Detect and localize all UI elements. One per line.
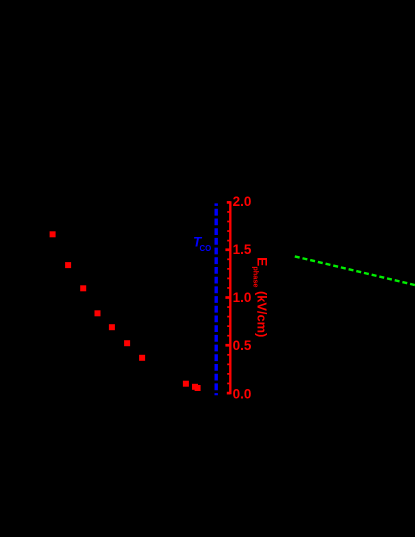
major ticks xyxy=(225,202,230,393)
data point 3 xyxy=(80,285,86,291)
data point 10 xyxy=(195,385,201,391)
green dashed line xyxy=(295,256,415,285)
data point 8 xyxy=(183,381,189,387)
axis label E_phase (kV/cm), rotated 90deg xyxy=(252,257,271,337)
red right axis spine xyxy=(229,201,231,394)
data point 5 xyxy=(109,324,115,330)
svg-text:CO: CO xyxy=(200,244,212,253)
data point 1 xyxy=(50,231,56,237)
data point 9 xyxy=(192,384,198,390)
minor ticks xyxy=(227,212,230,384)
svg-text:2.0: 2.0 xyxy=(233,194,252,209)
svg-text:1.5: 1.5 xyxy=(233,242,252,257)
data point 7 xyxy=(139,355,145,361)
svg-text:1.0: 1.0 xyxy=(233,290,252,305)
label T_CO xyxy=(193,235,211,253)
data point 6 xyxy=(124,340,130,346)
tick labels xyxy=(233,194,252,401)
svg-text:0.5: 0.5 xyxy=(233,338,252,353)
svg-text:0.0: 0.0 xyxy=(233,387,252,402)
blue dashed vertical line (T_CO marker) xyxy=(214,203,217,395)
data point 4 xyxy=(95,310,101,316)
data point 2 xyxy=(65,262,71,268)
red data squares xyxy=(50,231,201,391)
